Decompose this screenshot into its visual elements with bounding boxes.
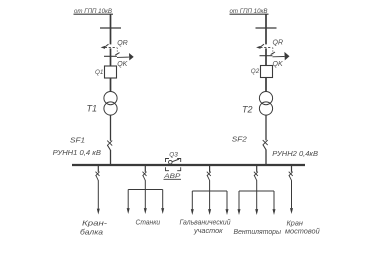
svg-text:Кран: Кран [287, 220, 304, 227]
svg-text:Гальванический: Гальванический [180, 219, 231, 227]
svg-text:балка: балка [80, 228, 103, 236]
svg-text:SF1: SF1 [70, 136, 85, 145]
svg-text:АВР: АВР [163, 173, 181, 180]
svg-text:РУНН1 0,4 кВ: РУНН1 0,4 кВ [53, 148, 101, 157]
svg-text:от ГПП 10кВ: от ГПП 10кВ [230, 8, 268, 15]
svg-text:Q3: Q3 [169, 151, 178, 158]
svg-text:QR: QR [273, 40, 284, 47]
svg-text:QK: QK [117, 61, 127, 68]
svg-text:мостовой: мостовой [285, 228, 320, 236]
svg-text:Станки: Станки [136, 220, 161, 227]
svg-text:SF2: SF2 [232, 135, 248, 144]
svg-text:участок: участок [193, 228, 223, 235]
svg-text:Q2: Q2 [251, 68, 260, 75]
svg-text:Т2: Т2 [242, 105, 253, 115]
svg-text:QR: QR [117, 40, 128, 47]
svg-text:Вентиляторы: Вентиляторы [234, 229, 282, 236]
svg-text:от ГПП 10кВ: от ГПП 10кВ [74, 8, 112, 15]
svg-text:Т1: Т1 [87, 104, 98, 114]
svg-text:QK: QK [273, 61, 283, 68]
svg-text:Кран-: Кран- [82, 220, 108, 227]
svg-text:РУНН2 0,4кВ: РУНН2 0,4кВ [272, 149, 318, 158]
svg-text:Q1: Q1 [95, 69, 103, 76]
